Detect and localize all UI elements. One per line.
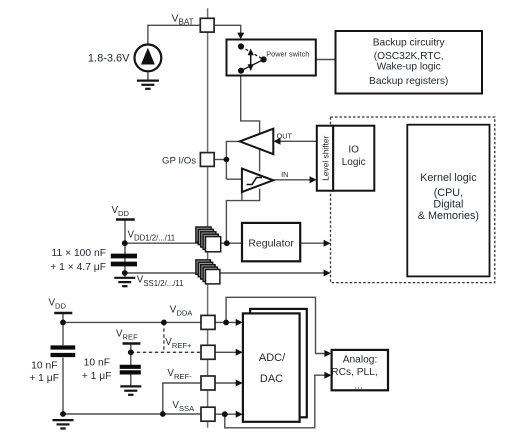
wire bottom VDD cap to bottom rail (62, 358, 64, 414)
arrow VDDA into ADC (236, 319, 243, 326)
svg-text:(CPU,: (CPU, (434, 187, 463, 199)
wire IN to level shifter (273, 179, 310, 181)
pin VBAT (200, 18, 214, 32)
node VDD1 junction right (224, 240, 230, 246)
power switch throw solid (241, 60, 264, 71)
wire VREF- to bottom rail (163, 383, 201, 414)
svg-text:Analog:: Analog: (343, 354, 378, 365)
svg-text:Level shifter: Level shifter (320, 135, 330, 180)
pin GP I/Os (200, 153, 214, 167)
wire VBAT pin to power switch (214, 25, 241, 33)
svg-text:OUT: OUT (277, 132, 293, 141)
wire GPIO junction to buffer tip (226, 141, 239, 179)
wire VBAT from source to pin (148, 25, 200, 44)
ground below VREF cap (120, 386, 141, 394)
svg-text:IN: IN (281, 170, 288, 179)
svg-text:IO: IO (348, 145, 359, 156)
svg-text:Kernel logic: Kernel logic (420, 172, 477, 184)
VDD mid supply bar (116, 218, 135, 221)
svg-text:Backup registers): Backup registers) (369, 76, 448, 87)
pin stack VSS1..11 (196, 260, 220, 284)
wire VDDA loop over ADC to analog block (226, 297, 325, 353)
power switch double arrow (248, 49, 254, 72)
kernel logic dashed domain (331, 117, 495, 283)
arrow VSS into kernel (324, 270, 331, 277)
svg-text:ADC/: ADC/ (259, 352, 286, 364)
svg-text:Regulator: Regulator (248, 238, 294, 250)
svg-text:DAC: DAC (260, 373, 283, 385)
node VREF- rail junction (160, 411, 166, 417)
node VSSA right junction (222, 411, 228, 417)
wire VDD1 line caps to regulator (125, 242, 242, 244)
wire VREF bar down through cap to ground (130, 344, 132, 366)
wire OUT from level shifter (280, 140, 317, 142)
wire GPIO junction to schmitt input (226, 178, 242, 180)
IO logic box (333, 126, 374, 191)
node VDDA right junction (223, 320, 229, 326)
wire VDDA pin to ADC (215, 321, 237, 323)
svg-text:10 nF: 10 nF (84, 358, 110, 369)
backup circuitry box (336, 31, 483, 94)
arrow IN into level shifter (310, 176, 317, 183)
capacitor VREF 10nF+1uF plates (120, 365, 141, 369)
svg-text:+ 1 × 4.7 μF: + 1 × 4.7 μF (50, 262, 106, 273)
svg-text:Wake-up logic: Wake-up logic (377, 62, 441, 73)
ground below mid caps (114, 278, 135, 286)
svg-text:Logic: Logic (342, 157, 366, 168)
VDD bottom supply bar (54, 312, 72, 315)
battery source 1.8-3.6V (88, 45, 161, 72)
svg-text:(OSC32K,RTC,: (OSC32K,RTC, (374, 51, 444, 62)
wire VSS1 line caps to kernel (125, 272, 325, 274)
wire regulator to kernel (300, 242, 324, 244)
pin VREF+ (201, 345, 215, 359)
wire VDD mid bar down through caps to ground (124, 220, 126, 278)
ADC DAC shadow box (250, 309, 307, 417)
wire rail between buffers (259, 149, 261, 171)
regulator box (242, 223, 300, 261)
node VREF junction (128, 349, 134, 355)
node VDDA dashed junction (161, 320, 167, 326)
wire VDDA to VREF+ dashed drop (163, 322, 165, 352)
schmitt trigger input buffer (242, 169, 273, 192)
node VDD bottom junction (60, 320, 66, 326)
arrow VSSA into ADC (236, 411, 243, 418)
arrow VREF- into ADC (236, 380, 243, 387)
wire schmitt base corner to rail (241, 192, 243, 201)
node VDD1 junction left (122, 240, 128, 246)
arrow VDDA into analog (324, 350, 331, 357)
pin column rail (207, 8, 209, 428)
power switch box (227, 40, 316, 76)
svg-text:& Memories): & Memories) (418, 210, 479, 222)
pin VDDA (201, 315, 215, 329)
svg-text:Power switch: Power switch (266, 50, 309, 59)
svg-text:...: ... (354, 380, 363, 391)
wire VREF- pin to ADC (215, 382, 237, 384)
wire VDDA horizontal (63, 321, 201, 323)
arrow VREF+ into ADC (236, 349, 243, 356)
power switch contact dots (238, 43, 244, 49)
power switch throw dashed (241, 47, 264, 60)
ground below bottom VDD cap (53, 420, 74, 428)
wire bottom VDD bar down (62, 313, 64, 345)
ADC DAC box (243, 313, 300, 421)
arrow OUT into buffer (274, 138, 281, 145)
wire source to ground (147, 71, 149, 80)
analog block box (331, 350, 388, 391)
wire bottom ground rail (63, 413, 201, 415)
svg-text:+ 1 μF: + 1 μF (29, 373, 59, 384)
wire GPIO pin to junction (214, 159, 226, 161)
svg-text:10 nF: 10 nF (31, 361, 57, 372)
wire VREF+ pin to ADC (215, 351, 237, 353)
node bottom rail ground junction (60, 411, 66, 417)
pin stack VDD1..11 (196, 227, 221, 252)
wire VSSA pin to ADC (215, 413, 237, 415)
level shifter box (317, 126, 333, 191)
node VSS1 junction left (122, 270, 128, 276)
svg-text:11 × 100 nF: 11 × 100 nF (52, 248, 106, 259)
svg-text:Backup circuitry: Backup circuitry (373, 37, 446, 48)
svg-text:Digital: Digital (433, 198, 463, 210)
arrow regulator into kernel (324, 240, 331, 247)
svg-text:GP I/Os: GP I/Os (162, 155, 196, 166)
capacitor 10nF+1uF plates (51, 345, 76, 349)
node GPIO junction (224, 157, 230, 163)
pin VREF- (201, 376, 215, 390)
kernel logic box (407, 125, 489, 277)
output buffer (240, 129, 274, 155)
wire VDD rail from power switch down (241, 76, 260, 135)
arrow into power switch (237, 33, 244, 40)
svg-text:1.8-3.6V: 1.8-3.6V (88, 53, 130, 65)
wire power switch to backup circuitry (264, 59, 336, 61)
wire rail below schmitt to VDD node (226, 189, 259, 244)
schmitt hysteresis symbol (247, 178, 263, 185)
arrow VSSA into analog (324, 372, 331, 379)
svg-text:RCs, PLL,: RCs, PLL, (331, 367, 377, 378)
capacitor 11x100nF plates (111, 254, 137, 259)
svg-text:+ 1 μF: + 1 μF (82, 371, 112, 382)
ground below source (137, 81, 159, 89)
VREF supply bar (123, 342, 141, 345)
wire VREF+ dashed (131, 351, 201, 353)
wire VSSA loop under ADC to analog block (225, 375, 326, 428)
pin VSSA (201, 407, 215, 421)
